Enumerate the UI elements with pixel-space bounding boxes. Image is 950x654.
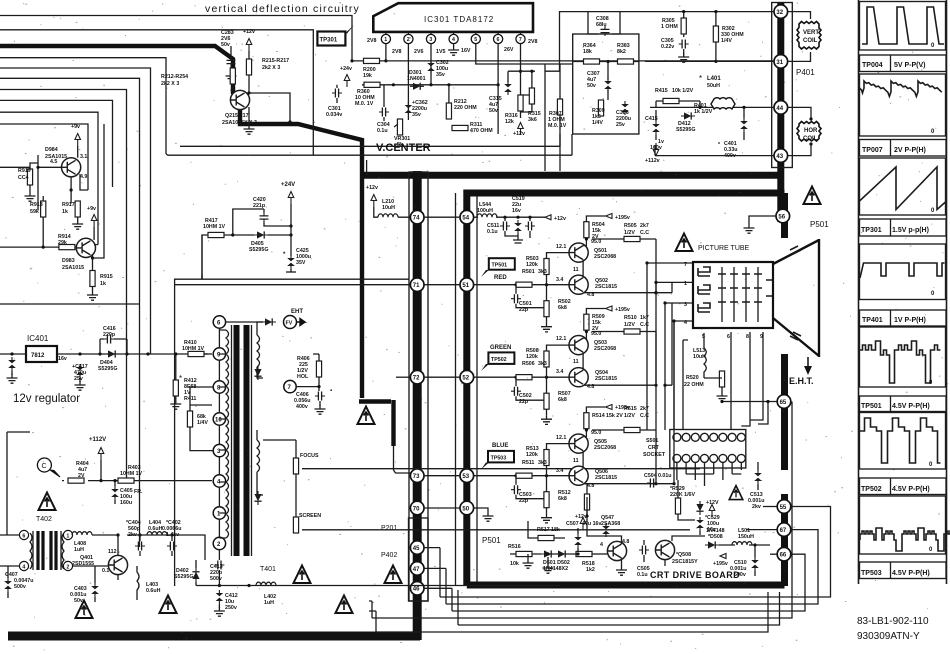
svg-text:50uH: 50uH (707, 83, 720, 89)
diode D301 (407, 70, 426, 90)
svg-text:10HM 1V: 10HM 1V (203, 224, 226, 230)
capacitor C505 (637, 540, 650, 578)
flyback pin 7 (284, 380, 321, 392)
capacitor C302 (427, 60, 449, 78)
svg-text:250v: 250v (225, 605, 237, 611)
capacitor C403 (70, 566, 99, 604)
svg-text:R917: R917 (62, 202, 75, 208)
svg-text:4: 4 (452, 37, 455, 43)
capacitor C283 (221, 30, 237, 81)
capacitor C406 (294, 387, 332, 415)
svg-text:50v: 50v (74, 598, 83, 604)
svg-text:D983: D983 (62, 258, 75, 264)
svg-text:2SC1815Y: 2SC1815Y (672, 559, 698, 565)
svg-text:3.4: 3.4 (556, 468, 563, 474)
connector 71 (410, 278, 424, 292)
svg-text:470 OHM: 470 OHM (470, 128, 493, 134)
hazard triangle mid bottom 2 (336, 596, 353, 614)
tube pin row wires (645, 261, 693, 340)
P501 connector bus upper segment (777, 175, 784, 222)
svg-text:4.8: 4.8 (587, 292, 594, 298)
wire top line to IC301 pin1 (0, 16, 352, 61)
svg-text:2SC2068: 2SC2068 (594, 346, 616, 352)
svg-text:3k6: 3k6 (528, 117, 537, 123)
power +9v arrow Q83 (87, 206, 97, 227)
svg-text:10HM 1V: 10HM 1V (182, 346, 205, 352)
svg-text:3.4: 3.4 (556, 369, 563, 375)
flyback pin 1 (213, 507, 225, 519)
power +112V arrow mid (89, 437, 106, 482)
P501 label inside board (482, 536, 501, 545)
diode D529 (696, 501, 703, 515)
P201 label (381, 525, 397, 532)
transistor Q401 (72, 549, 128, 575)
P501 label top (810, 220, 829, 229)
wire connector 44 to HOR COIL (788, 107, 813, 120)
svg-text:CRT: CRT (648, 445, 660, 451)
diode D402 (174, 560, 200, 586)
hazard triangle bar A (358, 407, 375, 425)
svg-text:0.1: 0.1 (102, 568, 109, 574)
Q215 collector thick trace (0, 46, 414, 473)
svg-text:S501: S501 (646, 438, 658, 444)
svg-text:7812: 7812 (31, 353, 45, 359)
capacitor C413 (210, 561, 224, 583)
svg-text:1: 1 (66, 533, 69, 539)
resistor R215-R217 (246, 51, 289, 90)
waveform TP502 box (860, 413, 946, 470)
svg-text:5V P-P(V): 5V P-P(V) (894, 62, 926, 69)
IC301 pin 6 (494, 32, 503, 44)
svg-text:+24V: +24V (281, 182, 295, 188)
capacitor C425 (283, 248, 311, 272)
svg-text:Q215-217: Q215-217 (225, 113, 249, 119)
svg-text:+9v: +9v (87, 206, 96, 212)
label TP501 (860, 396, 947, 412)
capacitor C301 (326, 85, 342, 118)
svg-text:CC4: CC4 (18, 175, 29, 181)
svg-text:▪: ▪ (330, 388, 332, 394)
EHT rectifier diode top (262, 318, 276, 325)
svg-text:44: 44 (776, 106, 783, 112)
TP501 callout (481, 258, 515, 281)
svg-text:+112V: +112V (89, 437, 106, 443)
capacitor C405 (111, 479, 143, 506)
wire bundle line 3 (0, 58, 166, 154)
coil L544 (477, 202, 497, 217)
svg-text:T402: T402 (36, 516, 52, 523)
svg-text:R415: R415 (655, 88, 668, 94)
svg-text:L401: L401 (707, 76, 721, 82)
svg-text:C.C: C.C (640, 230, 649, 236)
wire low rail (196, 584, 560, 587)
tube pin numbers (684, 262, 763, 340)
wire pin5 net drop (545, 64, 560, 171)
svg-text:GREEN: GREEN (490, 345, 511, 351)
S501 socket label (643, 438, 666, 458)
resistor R212b (446, 83, 477, 119)
svg-text:22p: 22p (519, 399, 529, 405)
svg-text:11: 11 (573, 267, 579, 273)
svg-text:IC301 TDA8172: IC301 TDA8172 (424, 15, 494, 24)
capacitor C417 (72, 364, 88, 390)
svg-text:3k3: 3k3 (538, 460, 547, 466)
svg-text:12k: 12k (505, 119, 514, 125)
power +12v arrow pin7 (513, 123, 525, 138)
diode D502 (543, 550, 570, 572)
connector 44 (774, 101, 788, 115)
svg-text:SOCKET: SOCKET (643, 452, 666, 458)
resistor R415 (655, 88, 700, 107)
capacitor C315 (489, 81, 512, 114)
P201 bus frame (409, 172, 428, 601)
svg-text:2SC1815: 2SC1815 (595, 284, 617, 290)
svg-text:52: 52 (462, 376, 469, 382)
resistor R302 (713, 12, 744, 62)
connector 74 (410, 210, 424, 224)
GREEN channel labels (519, 307, 649, 405)
label TP502 (860, 478, 947, 495)
svg-text:S5295G: S5295G (676, 127, 695, 133)
svg-text:0.034v: 0.034v (326, 112, 342, 118)
capacitor C404 (126, 520, 145, 556)
svg-text:8k2: 8k2 (617, 49, 626, 55)
svg-text:FV: FV (286, 321, 293, 327)
svg-text:6k8: 6k8 (558, 397, 567, 403)
bottom ground bus bar (8, 632, 420, 641)
svg-text:R516: R516 (508, 544, 521, 550)
coil L403 (137, 566, 161, 600)
svg-text:R918: R918 (30, 202, 43, 208)
flyback pin 3 (213, 444, 225, 456)
svg-text:TP007: TP007 (862, 147, 883, 154)
encircled C test point (37, 458, 60, 477)
svg-text:8: 8 (746, 334, 749, 340)
power +12v arrow board bottom (575, 514, 587, 530)
capacitor C304 (377, 85, 390, 134)
wire connector 65 branch (720, 400, 777, 424)
power +24v arrow IC301 (340, 66, 352, 87)
V.CENTER label (376, 142, 431, 154)
resistor R529 (670, 480, 695, 520)
waveform TP501 box (860, 327, 946, 387)
CRT drive board border (464, 190, 785, 586)
svg-text:4: 4 (684, 320, 687, 326)
resistor R915 (87, 271, 113, 301)
capacitor C401 (718, 107, 748, 159)
svg-text:18k: 18k (583, 49, 592, 55)
svg-text:2V8: 2V8 (528, 39, 537, 45)
resistor R360 (355, 82, 380, 107)
connector 66 (777, 547, 791, 561)
coil L402 (256, 582, 276, 606)
resistor R406 (297, 354, 322, 387)
svg-text:3: 3 (684, 302, 687, 308)
PICTURE TUBE label (698, 245, 750, 252)
wire R411 R412 links (176, 235, 213, 451)
svg-text:M.0. 1V: M.0. 1V (548, 123, 567, 129)
power +9v arrow Q84 (71, 124, 80, 146)
svg-text:221p: 221p (253, 203, 266, 209)
power +12v arrow Q215 (243, 29, 255, 51)
svg-text:4.8: 4.8 (587, 483, 594, 489)
svg-text:+12v: +12v (513, 131, 525, 137)
wire connector 56 ground (744, 216, 777, 233)
connector 73 (410, 469, 424, 483)
svg-text:R505: R505 (624, 223, 637, 229)
flyback pin 9 (213, 348, 225, 360)
svg-text:2V8: 2V8 (367, 38, 376, 44)
power +112v arrow (645, 143, 660, 164)
connector 32 (774, 5, 788, 19)
svg-text:C504: C504 (644, 473, 657, 479)
svg-text:5: 5 (474, 37, 477, 43)
svg-text:1/2V: 1/2V (624, 230, 635, 236)
resistor R917 (62, 201, 83, 229)
svg-text:1/2V: 1/2V (624, 413, 635, 419)
diode D405 (231, 231, 291, 253)
svg-text:43: 43 (776, 154, 783, 160)
svg-text:10k: 10k (510, 561, 519, 567)
svg-text:1k: 1k (100, 281, 106, 287)
capacitor C402 (162, 520, 181, 556)
svg-text:112: 112 (108, 549, 117, 555)
svg-text:22 OHM: 22 OHM (684, 382, 704, 388)
svg-text:83-LB1-902-110: 83-LB1-902-110 (857, 616, 929, 627)
svg-text:2V P-P(H): 2V P-P(H) (894, 147, 926, 154)
waveform TP004 box (860, 2, 946, 51)
svg-text:HOL: HOL (297, 374, 309, 380)
capacitor C511 (487, 217, 518, 236)
svg-text:+195v: +195v (615, 307, 630, 313)
nested wire group board bottom to right risers (369, 402, 831, 633)
hazard triangle T402 (39, 493, 56, 511)
resistor R403 (118, 465, 143, 483)
wire blank output (665, 536, 770, 566)
svg-text:3k3: 3k3 (538, 361, 547, 367)
svg-text:TP502: TP502 (861, 486, 882, 493)
svg-text:P201: P201 (381, 525, 397, 532)
svg-text:1uH: 1uH (264, 600, 274, 606)
svg-text:1k 1/2V: 1k 1/2V (694, 109, 713, 115)
svg-text:+12v: +12v (575, 514, 587, 520)
svg-text:P402: P402 (381, 552, 397, 559)
svg-text:500v: 500v (14, 584, 26, 590)
IC301 pin 3 (426, 32, 435, 44)
power +24V arrow (281, 182, 295, 256)
svg-text:53: 53 (462, 474, 469, 480)
winding diode low (254, 491, 261, 505)
waveform TP401 box (860, 244, 946, 300)
svg-text:2V6: 2V6 (414, 49, 423, 55)
capacitor C307 (587, 71, 612, 92)
wire connector 66 stub (770, 553, 777, 555)
capacitor C415 (645, 110, 664, 151)
svg-text:0.1u: 0.1u (377, 128, 388, 134)
svg-text:P501: P501 (810, 220, 829, 229)
svg-text:RED: RED (494, 275, 507, 281)
connector 72 (410, 370, 424, 384)
IC301 pin 1 (381, 32, 390, 44)
svg-text:TP502: TP502 (491, 357, 507, 363)
resistor R315 (521, 88, 541, 123)
grid electrodes (718, 267, 772, 322)
svg-text:R215-R217: R215-R217 (262, 58, 289, 64)
transistor Q83 (62, 238, 96, 271)
wire pin7 bias network (508, 11, 774, 95)
wire bundle line 5 (0, 78, 140, 547)
svg-text:56: 56 (778, 214, 785, 220)
wire second line to V.CENTER feed (0, 30, 313, 155)
wires between P201 and board connectors (424, 217, 460, 508)
svg-text:1k2: 1k2 (586, 567, 595, 573)
svg-text:2V: 2V (78, 473, 85, 479)
capacitor C407 (4, 566, 33, 598)
resistor R311 (452, 122, 493, 134)
svg-text:150uH: 150uH (738, 534, 754, 540)
svg-text:18k: 18k (551, 527, 560, 533)
svg-text:16v: 16v (58, 356, 67, 362)
connector 51 (460, 278, 474, 292)
diode D412 (676, 112, 695, 133)
svg-text:vertical deflection circuitry: vertical deflection circuitry (205, 3, 360, 15)
svg-text:3.1: 3.1 (80, 154, 87, 160)
wire bundle line 4 (0, 68, 151, 354)
svg-text:4.5: 4.5 (50, 159, 57, 165)
resistor R307 (548, 64, 567, 129)
svg-text:4.8: 4.8 (587, 384, 594, 390)
svg-text:R501: R501 (522, 269, 535, 275)
middle feedback box (573, 34, 639, 134)
svg-text:32: 32 (776, 10, 783, 16)
ground Q215 emitter (244, 112, 255, 134)
svg-text:59k: 59k (30, 209, 39, 215)
svg-text:C.C: C.C (640, 322, 649, 328)
connector 56 (776, 209, 790, 223)
wire connector44 net (650, 106, 774, 109)
svg-text:16v: 16v (512, 208, 521, 214)
svg-text:25v: 25v (616, 122, 625, 128)
hazard triangle P402 (385, 566, 402, 584)
svg-text:TP503: TP503 (491, 455, 507, 461)
svg-text:11: 11 (573, 359, 579, 365)
svg-text:TP503: TP503 (861, 570, 882, 577)
svg-text:2k7: 2k7 (640, 223, 649, 229)
svg-text:35v: 35v (412, 112, 421, 118)
svg-text:220p: 220p (103, 332, 116, 338)
svg-text:12.1: 12.1 (556, 435, 566, 441)
svg-text:S5295G: S5295G (98, 366, 117, 372)
resistor R305 (661, 12, 686, 37)
svg-text:COIL: COIL (803, 38, 818, 44)
wire connector 31 to VERT COIL (788, 52, 811, 61)
svg-text:V.CENTER: V.CENTER (376, 142, 431, 154)
resistor R914 (43, 234, 75, 250)
connector 65 (777, 395, 791, 409)
svg-text:*D508: *D508 (708, 534, 723, 540)
svg-text:R915: R915 (100, 274, 113, 280)
flyback pin 10 (213, 413, 225, 425)
svg-text:*: * (699, 74, 702, 83)
svg-text:2k2 X 3: 2k2 X 3 (161, 81, 179, 87)
wire Q84 connections (36, 146, 88, 210)
svg-text:1V5: 1V5 (436, 49, 445, 55)
connector 52 (460, 370, 474, 384)
svg-text:1: 1 (384, 37, 387, 43)
svg-text:1.4kv: 1.4kv (166, 532, 179, 538)
svg-text:500v: 500v (210, 576, 222, 582)
svg-text:12v regulator: 12v regulator (13, 393, 80, 405)
svg-text:TP501: TP501 (492, 263, 508, 269)
svg-text:2SA1015: 2SA1015 (62, 265, 84, 271)
power +12V socket arrow (706, 500, 719, 517)
wire connector 67 stub (746, 529, 777, 531)
svg-text:1N4001: 1N4001 (407, 76, 426, 82)
svg-text:+9v: +9v (71, 124, 80, 130)
resistor R520 (684, 371, 728, 401)
svg-text:3.4: 3.4 (556, 277, 563, 283)
svg-text:19k: 19k (363, 73, 372, 79)
hazard triangle picture tube (676, 234, 693, 252)
FOCUS resistor (293, 453, 700, 474)
svg-text:72: 72 (413, 376, 420, 382)
svg-text:16v: 16v (707, 527, 716, 533)
svg-text:220 OHM: 220 OHM (454, 105, 477, 111)
svg-text:4: 4 (22, 564, 25, 570)
waveform TP503 box (860, 496, 950, 554)
svg-text:0.01u: 0.01u (658, 473, 672, 479)
capacitor C507 (566, 521, 601, 554)
tube pin drop wires to socket (731, 332, 763, 430)
flyback pin 2 (213, 537, 225, 549)
svg-text:COIL: COIL (803, 136, 818, 142)
hazard triangle bottom left (76, 601, 93, 619)
svg-text:35v: 35v (436, 72, 445, 78)
board +12v rail (473, 216, 545, 219)
svg-text:160u: 160u (120, 500, 132, 506)
capacitor C504 (644, 473, 672, 488)
svg-text:+112v: +112v (645, 158, 660, 164)
svg-text:SCREEN: SCREEN (299, 513, 321, 519)
svg-text:2: 2 (407, 37, 410, 43)
svg-text:10uH: 10uH (693, 354, 706, 360)
label TP503 (860, 562, 947, 579)
svg-text:400v: 400v (296, 404, 308, 410)
svg-text:R511: R511 (522, 460, 534, 466)
svg-text:TP301: TP301 (861, 227, 882, 234)
svg-text:0.6uH: 0.6uH (148, 526, 163, 532)
capacitor C362 (405, 100, 428, 120)
svg-text:T401: T401 (260, 566, 276, 573)
svg-text:EHT: EHT (291, 309, 303, 315)
winding diode mid (254, 366, 261, 380)
svg-text:0.1u: 0.1u (487, 229, 498, 235)
svg-text:2SC1815: 2SC1815 (595, 376, 617, 382)
resistor R212-R254 (161, 68, 235, 87)
VERT COIL (797, 22, 821, 50)
coil L401 (699, 74, 735, 109)
svg-text:0.22v: 0.22v (661, 44, 674, 50)
svg-text:4: 4 (600, 542, 603, 548)
connector 50 (460, 501, 474, 515)
channel output routing verticals (647, 263, 683, 485)
coil L408 (72, 532, 105, 553)
svg-text:HOR: HOR (804, 128, 818, 134)
svg-text:6: 6 (497, 37, 500, 43)
wire +24v row (362, 83, 498, 86)
wire bundle line 7 (0, 100, 113, 187)
connector 43 (774, 149, 788, 163)
